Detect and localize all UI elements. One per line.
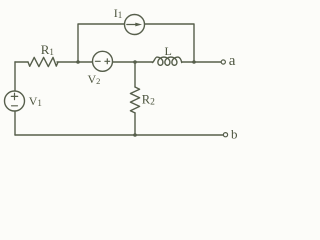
wire: R2 top stub [134,62,136,87]
svg-text:a: a [229,53,236,69]
voltage source V1 [5,91,25,111]
svg-text:R1: R1 [41,42,54,57]
voltage source V2 [93,51,113,71]
junction at R2 top [133,60,137,64]
svg-text:R2: R2 [142,92,155,107]
wire: R2 bottom stub [134,113,136,135]
current source I1 [125,15,145,35]
terminal a [221,60,225,64]
svg-text:V2: V2 [88,72,101,86]
svg-text:I1: I1 [114,6,123,20]
wire: bottom row to terminal b [15,134,223,136]
svg-text:L: L [165,44,172,58]
resistor R1 [28,57,58,66]
wire: middle row, left corner to R1 [15,61,28,63]
inductor L [152,57,181,65]
junction at node left of V2 [76,60,80,64]
wire: middle row, R1 through V2 to inductor [57,61,153,63]
junction right of L [192,60,196,64]
svg-text:b: b [231,127,238,142]
terminal b [223,133,227,137]
resistor R2 [130,87,139,113]
wire: left rail from middle row down through V1 [14,62,16,135]
svg-text:V1: V1 [29,94,42,108]
wire: top loop branch through current source I1 [78,24,194,62]
junction at R2 bottom [133,133,137,137]
wire: middle row, inductor to terminal a [182,61,221,63]
